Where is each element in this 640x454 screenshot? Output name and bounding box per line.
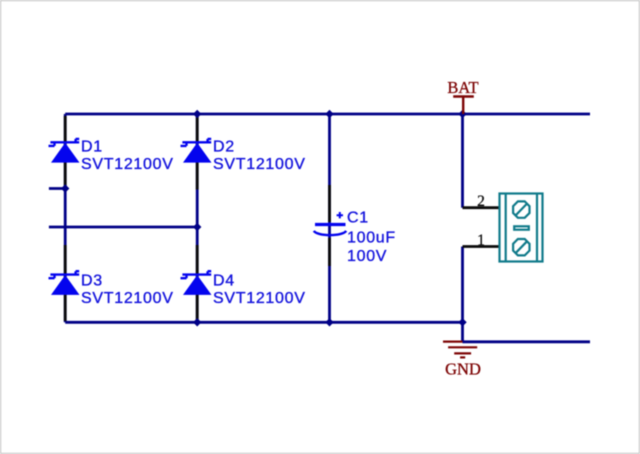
svg-text:1: 1	[477, 232, 485, 249]
svg-text:GND: GND	[445, 360, 481, 379]
svg-text:SVT12100V: SVT12100V	[213, 156, 306, 173]
svg-text:C1: C1	[347, 210, 369, 227]
svg-text:D4: D4	[213, 273, 235, 290]
svg-text:SVT12100V: SVT12100V	[81, 156, 174, 173]
svg-text:D3: D3	[81, 273, 103, 290]
svg-text:SVT12100V: SVT12100V	[213, 290, 306, 307]
svg-text:100V: 100V	[347, 248, 387, 265]
svg-text:SVT12100V: SVT12100V	[81, 290, 174, 307]
svg-text:D2: D2	[213, 139, 235, 156]
svg-text:2: 2	[477, 193, 485, 210]
svg-text:D1: D1	[81, 139, 103, 156]
svg-text:BAT: BAT	[447, 78, 478, 97]
svg-text:100uF: 100uF	[347, 230, 396, 247]
